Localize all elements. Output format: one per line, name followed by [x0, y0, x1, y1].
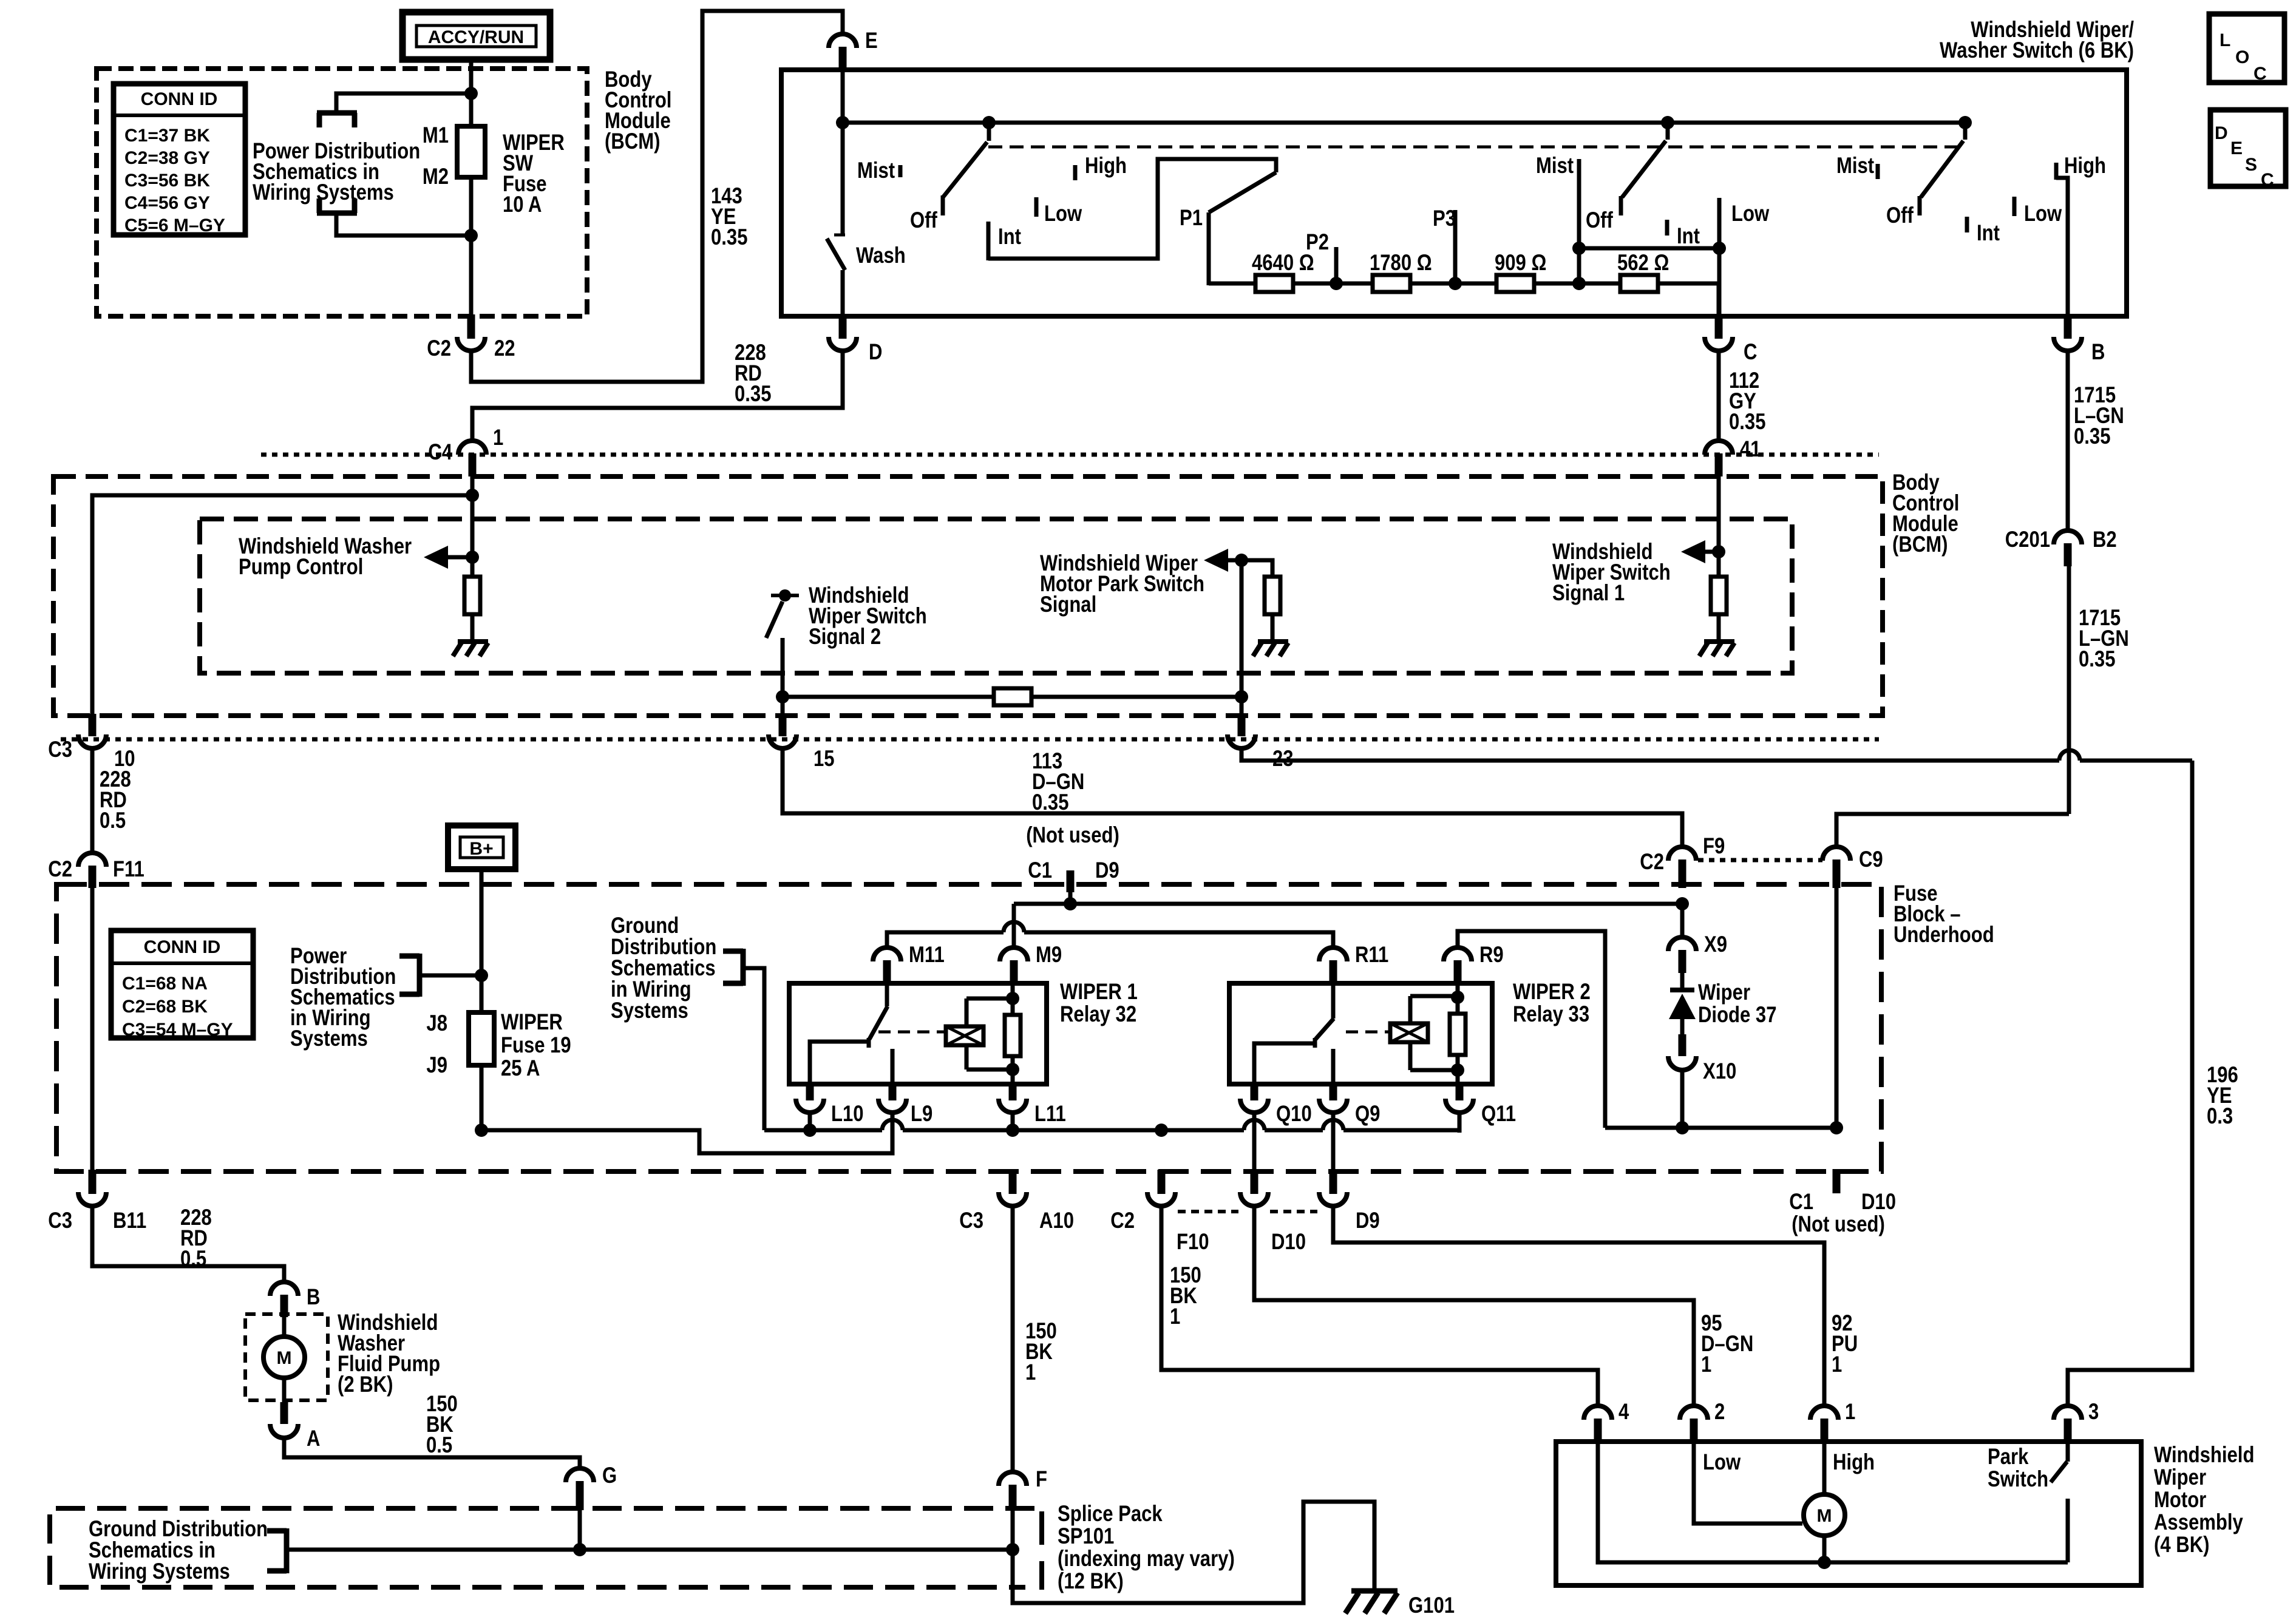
- svg-text:D: D: [2215, 123, 2228, 143]
- wire splice to G101: [1013, 1502, 1374, 1603]
- svg-text:(indexing may vary): (indexing may vary): [1058, 1547, 1235, 1571]
- wire 150 BK 1 (A10 to F): [1011, 1205, 1015, 1473]
- node D9 bus F9 branch: [1676, 897, 1689, 910]
- wire gang3 High to B: [2056, 178, 2068, 316]
- DESC box: [2210, 110, 2286, 190]
- contact P2: [1306, 230, 1336, 283]
- connector C3 pin 10: [48, 714, 135, 771]
- off-page bracket (ground distribution relay): [723, 949, 743, 986]
- pin J9 label: [426, 1053, 447, 1078]
- label Windshield Washer Fluid Pump (2 BK): [338, 1310, 440, 1397]
- label Wiper Diode 37: [1698, 980, 1777, 1028]
- svg-text:1: 1: [493, 425, 503, 450]
- label Windshield Wiper Motor Assembly (4 BK): [2154, 1443, 2254, 1558]
- node fuse 19 out: [475, 1124, 488, 1137]
- svg-text:E: E: [2230, 138, 2243, 158]
- wire R562 to C: [1658, 283, 1719, 316]
- resistor 562 ohm: [1617, 251, 1669, 292]
- svg-text:P1: P1: [1180, 206, 1203, 231]
- svg-text:M: M: [1817, 1506, 1832, 1526]
- svg-text:(Not used): (Not used): [1026, 823, 1119, 848]
- svg-text:B11: B11: [113, 1209, 146, 1233]
- splice SP101: [1006, 1511, 1042, 1590]
- svg-text:Wash: Wash: [856, 243, 906, 268]
- wiper motor assembly box: [1556, 1442, 2141, 1585]
- svg-text:Off: Off: [1586, 208, 1613, 233]
- svg-text:0.35: 0.35: [2079, 647, 2115, 672]
- label Windshield Wiper/Washer Switch (6 BK): [1940, 18, 2134, 63]
- svg-text:0.35: 0.35: [735, 382, 771, 407]
- svg-text:X9: X9: [1704, 932, 1727, 957]
- svg-text:M11: M11: [909, 943, 945, 968]
- svg-text:1: 1: [1701, 1352, 1711, 1377]
- svg-text:0.5: 0.5: [426, 1433, 452, 1458]
- gang3 blade to Off: [1920, 123, 1965, 215]
- wire motor low (2): [1694, 1443, 1802, 1524]
- node C9 bus junction: [1830, 1121, 1843, 1134]
- svg-text:Low: Low: [1044, 202, 1082, 226]
- contact gang3 High: [2056, 154, 2106, 180]
- svg-text:41: 41: [1740, 437, 1761, 462]
- connector 3 (motor): [2054, 1400, 2099, 1443]
- svg-text:C: C: [1744, 340, 1757, 365]
- wire bracket to G wire: [287, 1548, 580, 1552]
- power flag ACCY/RUN: [402, 12, 550, 59]
- gang1 blade to Off: [943, 123, 989, 215]
- label Park Switch: [1988, 1445, 2048, 1492]
- relay1 NO contact L9 post: [891, 1049, 895, 1084]
- connector B (washer switch): [2054, 314, 2105, 365]
- hop bus over Q9: [1323, 1120, 1343, 1130]
- node D9 bus M9 branch: [1064, 897, 1077, 910]
- connector D10: [1240, 1170, 1306, 1255]
- node gang2 Mist-Low junction: [1572, 242, 1586, 255]
- label gang1 Low: [1036, 197, 1082, 226]
- connector M9: [1000, 943, 1062, 986]
- svg-text:C2: C2: [48, 857, 72, 882]
- wire X10 to bottom bus: [1680, 1070, 1685, 1128]
- wire Q10 to D10: [1252, 1112, 1257, 1171]
- label 95 D-GN 1: [1701, 1311, 1753, 1377]
- svg-text:F11: F11: [113, 857, 144, 882]
- svg-text:CONN ID: CONN ID: [141, 89, 218, 109]
- svg-text:S: S: [2245, 155, 2257, 175]
- svg-text:High: High: [2064, 154, 2106, 178]
- label gang1 High: [1075, 154, 1127, 180]
- svg-text:D9: D9: [1095, 858, 1119, 883]
- connector 1 (motor): [1810, 1400, 1855, 1443]
- wire ACCY/RUN to fuse: [469, 59, 474, 129]
- svg-text:0.3: 0.3: [2207, 1104, 2233, 1129]
- svg-text:C1: C1: [1789, 1190, 1813, 1215]
- svg-text:D9: D9: [1356, 1209, 1380, 1233]
- wire P3 to R909: [1455, 282, 1496, 286]
- node gang2 pivot: [1661, 116, 1674, 129]
- svg-text:Splice Pack: Splice Pack: [1058, 1502, 1163, 1527]
- svg-text:J8: J8: [426, 1011, 447, 1036]
- svg-text:D10: D10: [1271, 1230, 1306, 1255]
- svg-text:0.35: 0.35: [1032, 790, 1068, 815]
- wire 1715 L-GN (B to C201): [2066, 351, 2070, 532]
- wire F11 to B11: [90, 888, 95, 1171]
- svg-text:M1: M1: [423, 123, 449, 148]
- svg-text:(2 BK): (2 BK): [338, 1372, 393, 1397]
- label Fuse Block - Underhood: [1894, 881, 1994, 947]
- svg-text:C2=68 BK: C2=68 BK: [122, 997, 208, 1017]
- node washer pump branch: [466, 489, 479, 502]
- BCM box (dashed): [53, 476, 1883, 716]
- resistor signal2: [994, 688, 1031, 705]
- node gang2 Low junction: [1713, 242, 1726, 255]
- svg-text:C1=68 NA: C1=68 NA: [122, 974, 208, 994]
- off-page bracket (ground distribution bottom): [267, 1528, 287, 1573]
- wire M11-R11 bus: [887, 932, 1333, 947]
- wire G to splice: [578, 1510, 582, 1550]
- label 228 RD 0.5 (pump): [180, 1205, 212, 1272]
- connector C3 pin A10: [959, 1170, 1074, 1233]
- relay2 armature: [1315, 986, 1334, 1048]
- arrow park switch signal: [1204, 549, 1240, 572]
- svg-text:C2=38 GY: C2=38 GY: [124, 148, 210, 168]
- resistor 4640 ohm: [1252, 251, 1314, 292]
- label 196 YE 0.3: [2207, 1063, 2238, 1129]
- CONN ID table (BCM): [114, 84, 245, 236]
- svg-text:High: High: [1085, 154, 1127, 178]
- node F10 bus junction: [1155, 1124, 1168, 1137]
- label WIPER 2 Relay 33: [1513, 980, 1591, 1027]
- LOC box: [2209, 14, 2284, 84]
- wire L10 to bus: [808, 1112, 812, 1130]
- svg-text:M9: M9: [1036, 943, 1062, 968]
- svg-text:G101: G101: [1408, 1593, 1455, 1617]
- connector G: [566, 1463, 617, 1510]
- svg-text:R9: R9: [1479, 943, 1504, 968]
- label 143 YE 0.35: [711, 184, 747, 250]
- node gang3 pivot: [1958, 116, 1972, 129]
- wire 1715 L-GN (C201 down): [2067, 566, 2071, 814]
- park switch: [2051, 1443, 2068, 1562]
- node fuse 19 top: [475, 969, 488, 982]
- connector Q9: [1319, 1082, 1380, 1127]
- svg-text:Int: Int: [1677, 224, 1700, 249]
- label gang1 Mist: [857, 158, 900, 183]
- svg-text:F10: F10: [1177, 1230, 1209, 1255]
- contact gang2 Low bar: [1719, 198, 1770, 248]
- svg-text:X10: X10: [1703, 1059, 1736, 1084]
- gang2 blade to Off: [1621, 123, 1668, 215]
- node L10 bus junction: [803, 1124, 817, 1137]
- svg-text:C: C: [2261, 170, 2274, 190]
- wire R1780 to P3: [1410, 282, 1455, 286]
- svg-text:L9: L9: [911, 1102, 932, 1127]
- wire R909 to Mist bar: [1534, 282, 1579, 286]
- off-page bracket (B+ distribution): [399, 954, 419, 997]
- wire common to park post: [1824, 1561, 2068, 1565]
- svg-text:WIPER: WIPER: [501, 1010, 563, 1035]
- svg-text:Systems: Systems: [611, 998, 688, 1023]
- svg-text:Relay 32: Relay 32: [1060, 1002, 1136, 1027]
- label gang3 Mist: [1836, 154, 1878, 179]
- wire resistor to park node: [1031, 695, 1241, 699]
- connector D9: [1319, 1170, 1380, 1233]
- BCM connector line C3 (dotted): [61, 737, 1879, 742]
- node park switch wire: [1235, 690, 1248, 703]
- connector Q11: [1445, 1082, 1516, 1127]
- resistor signal1 pulldown: [1711, 577, 1727, 614]
- wire D9 bus: [1014, 892, 1682, 904]
- svg-text:C3: C3: [48, 1209, 72, 1233]
- wire resistor to ground (signal1): [1717, 614, 1721, 642]
- relay1 link (dashed): [878, 1031, 947, 1034]
- wire 113 D-GN (15 to F9): [783, 749, 1682, 849]
- wire 112 GY (C to 41): [1717, 351, 1721, 441]
- svg-text:M: M: [277, 1348, 292, 1368]
- label 150 BK 1 (F10): [1170, 1263, 1201, 1329]
- connector C2 pin 22: [427, 314, 515, 361]
- connector L11: [999, 1082, 1066, 1127]
- connector C9: [1822, 847, 1883, 888]
- relay WIPER 2 Relay 33 box: [1229, 983, 1492, 1084]
- arrow wiper switch signal 1: [1681, 540, 1717, 563]
- contact P1 post: [1180, 206, 1209, 285]
- relay2 link (dashed): [1346, 1031, 1390, 1034]
- connector R11: [1319, 943, 1388, 986]
- pin M2 label: [423, 164, 449, 189]
- svg-text:(12 BK): (12 BK): [1058, 1569, 1124, 1594]
- wire 228 RD 0.5 (10 to F11): [90, 749, 95, 854]
- svg-text:A10: A10: [1039, 1209, 1074, 1233]
- label 113 D-GN 0.35: [1032, 749, 1084, 815]
- svg-text:Switch: Switch: [1988, 1467, 2048, 1492]
- wire F to splice: [1011, 1510, 1015, 1550]
- svg-text:Q10: Q10: [1276, 1102, 1312, 1127]
- node relay2 coil top: [1451, 991, 1464, 1004]
- wiper motor M: [1804, 1494, 1845, 1562]
- connector L10: [796, 1082, 864, 1127]
- svg-text:Wiring Systems: Wiring Systems: [89, 1559, 230, 1584]
- label WIPER Fuse 19 25 A: [501, 1010, 571, 1081]
- wire resistor to ground (park): [1271, 614, 1275, 642]
- wire chain to R562: [1579, 282, 1620, 286]
- svg-text:A: A: [307, 1426, 320, 1451]
- label 228 RD 0.5: [100, 767, 131, 833]
- svg-text:(4 BK): (4 BK): [2154, 1533, 2209, 1558]
- relay2 NC contact Q10 arm: [1254, 1043, 1316, 1084]
- wash switch: [827, 123, 906, 316]
- label High (motor): [1833, 1450, 1875, 1475]
- node relay1 coil bottom: [1006, 1063, 1019, 1076]
- svg-text:P3: P3: [1433, 206, 1456, 231]
- svg-text:Signal: Signal: [1040, 592, 1096, 617]
- svg-text:0.5: 0.5: [180, 1247, 206, 1272]
- svg-text:J9: J9: [426, 1053, 447, 1078]
- node P3 junction: [1449, 277, 1462, 290]
- svg-text:R11: R11: [1355, 943, 1388, 968]
- connector 41: [1705, 437, 1761, 476]
- svg-text:562 Ω: 562 Ω: [1617, 251, 1669, 276]
- diode Wiper Diode 37: [1669, 973, 1696, 1034]
- svg-text:C3=54 M–GY: C3=54 M–GY: [122, 1020, 233, 1040]
- label gang3 Int: [1967, 217, 2000, 246]
- label 150 BK 1 (A10): [1025, 1319, 1057, 1385]
- svg-text:Q9: Q9: [1355, 1102, 1380, 1127]
- relay1 NC contact L10 arm: [810, 1042, 871, 1084]
- svg-text:(Not used): (Not used): [1792, 1212, 1885, 1237]
- relay2 NO contact Q9 post: [1331, 1049, 1336, 1084]
- svg-text:L: L: [2220, 30, 2230, 50]
- label Windshield Wiper Motor Park Switch Signal: [1040, 551, 1204, 617]
- connector 15: [769, 714, 835, 771]
- connector Q10: [1240, 1082, 1312, 1127]
- svg-text:C2: C2: [427, 336, 451, 361]
- svg-text:0.35: 0.35: [2074, 424, 2110, 449]
- svg-text:High: High: [1833, 1450, 1875, 1475]
- svg-text:M2: M2: [423, 164, 449, 189]
- svg-text:Mist: Mist: [857, 158, 895, 183]
- svg-text:25 A: 25 A: [501, 1056, 540, 1081]
- node washer pump control: [466, 551, 479, 564]
- wire 143 YE (C2-22 to switch E): [471, 11, 843, 382]
- wire L9 to fuse jog: [891, 1112, 895, 1153]
- wire bracket to fuse 19: [419, 974, 480, 978]
- svg-text:1: 1: [1845, 1400, 1855, 1425]
- wire fuse 19 to bus: [480, 1065, 484, 1130]
- connector F: [999, 1467, 1047, 1510]
- wire P1 to R4640: [1209, 282, 1255, 286]
- CONN ID table (fuse block): [111, 931, 253, 1040]
- svg-text:B: B: [2091, 340, 2105, 365]
- connector link F10-D10-D9 (dashed): [1178, 1210, 1317, 1213]
- wire relay output bottom bus: [1605, 1126, 1836, 1130]
- label 1715 L-GN 0.35 (upper): [2074, 383, 2124, 449]
- connector 4 (motor): [1584, 1400, 1629, 1443]
- svg-text:D: D: [869, 340, 882, 365]
- hop bus over Q10: [1244, 1120, 1265, 1130]
- svg-text:0.35: 0.35: [1729, 410, 1765, 435]
- wire park signal to resistor: [1241, 560, 1272, 577]
- node X10 bus junction: [1676, 1121, 1689, 1134]
- label Windshield Wiper Switch Signal 2: [809, 583, 927, 649]
- wire signal2 to resistor: [783, 695, 994, 699]
- wire P2 to R1780: [1336, 282, 1373, 286]
- connector 2 (motor): [1680, 1400, 1725, 1443]
- svg-text:L11: L11: [1034, 1102, 1066, 1127]
- power flag B+: [448, 825, 515, 869]
- node P2 junction: [1330, 277, 1343, 290]
- svg-text:Int: Int: [998, 225, 1021, 249]
- wire 92 PU (D9 to motor 1): [1333, 1205, 1824, 1406]
- wire F9 bus to X9: [1680, 904, 1685, 939]
- label Ground Distribution Schematics (bottom): [89, 1517, 268, 1584]
- label gang1 Off: [910, 208, 937, 233]
- label Windshield Washer Pump Control: [239, 534, 412, 580]
- wire gang2 Low to C: [1717, 248, 1722, 316]
- contact P3: [1433, 206, 1456, 283]
- label 228 RD 0.35: [735, 341, 771, 407]
- svg-text:3: 3: [2088, 1400, 2099, 1425]
- svg-text:Washer Switch (6 BK): Washer Switch (6 BK): [1940, 38, 2134, 63]
- fuse block connector line (dotted): [1698, 858, 1822, 863]
- relay2 coil resistor: [1450, 986, 1466, 1084]
- connector R9: [1444, 943, 1504, 986]
- svg-text:1780 Ω: 1780 Ω: [1370, 251, 1432, 276]
- svg-text:B+: B+: [469, 839, 493, 859]
- wire Q9 to D9: [1331, 1112, 1336, 1171]
- svg-text:Park: Park: [1988, 1445, 2029, 1470]
- wire 196 YE (to park switch 3): [2068, 761, 2192, 1406]
- wire signal2 to 15: [781, 697, 785, 717]
- svg-text:F9: F9: [1703, 834, 1725, 859]
- connector L9: [878, 1082, 932, 1127]
- BCM connector line C4 (dotted): [261, 453, 1879, 457]
- wire 23 to 196-YE corner: [1241, 749, 2192, 761]
- node wiper switch signal 1: [1712, 545, 1725, 558]
- svg-text:Mist: Mist: [1536, 154, 1574, 178]
- svg-text:Pump Control: Pump Control: [239, 555, 363, 580]
- svg-text:Wiper: Wiper: [2154, 1465, 2206, 1490]
- svg-text:Low: Low: [1731, 202, 1770, 226]
- connector C2 pin F11: [48, 853, 144, 888]
- svg-text:D10: D10: [1861, 1190, 1896, 1215]
- windshield wiper/washer switch box: [781, 70, 2127, 316]
- resistor washer pump pulldown: [464, 577, 480, 614]
- svg-text:Motor: Motor: [2154, 1488, 2206, 1513]
- node park switch signal: [1235, 554, 1248, 567]
- pin M1 label: [423, 123, 449, 148]
- svg-text:Underhood: Underhood: [1894, 923, 1994, 947]
- label gang3 Low: [2014, 197, 2062, 226]
- svg-text:B2: B2: [2093, 527, 2117, 552]
- svg-text:C1=37 BK: C1=37 BK: [124, 126, 210, 146]
- node E bus junction: [836, 116, 849, 129]
- wire park node up: [1240, 560, 1244, 697]
- svg-text:WIPER 1: WIPER 1: [1060, 980, 1138, 1005]
- svg-text:G: G: [602, 1463, 617, 1488]
- svg-text:L10: L10: [831, 1102, 864, 1127]
- wire fuse to C2-22: [469, 177, 474, 316]
- label gang2 Int: [1667, 220, 1700, 249]
- wire C4-1 into BCM: [470, 476, 475, 577]
- connector D (washer switch): [829, 314, 882, 365]
- svg-text:Relay 33: Relay 33: [1513, 1002, 1589, 1027]
- connector C4 pin 1: [428, 425, 503, 476]
- P1 wiper blade: [1209, 172, 1276, 212]
- svg-text:Windshield: Windshield: [2154, 1443, 2254, 1468]
- wire 1715 to C9: [1836, 814, 2069, 849]
- svg-text:4: 4: [1618, 1400, 1629, 1425]
- connector C (washer switch): [1705, 314, 1757, 365]
- resistor park signal pulldown: [1265, 577, 1280, 614]
- node L11 bus junction: [1006, 1124, 1019, 1137]
- hop bus over L9: [882, 1120, 903, 1130]
- wire 95 D-GN (D10 to motor 2): [1254, 1205, 1694, 1406]
- svg-text:WIPER 2: WIPER 2: [1513, 980, 1591, 1005]
- svg-text:C2: C2: [1110, 1209, 1135, 1233]
- label Windshield Wiper Switch Signal 1: [1552, 540, 1671, 606]
- svg-text:C3: C3: [959, 1209, 983, 1233]
- label Body Control Module (BCM) right: [1892, 470, 1959, 557]
- label 112 GY 0.35: [1729, 368, 1765, 435]
- svg-text:0.5: 0.5: [100, 808, 126, 833]
- svg-text:Signal 1: Signal 1: [1552, 581, 1625, 606]
- ground distribution box (dashed): [50, 1508, 1034, 1587]
- svg-text:F: F: [1036, 1467, 1047, 1492]
- connector C2 pin F9: [1640, 834, 1725, 888]
- wire motor common (4): [1598, 1443, 1822, 1562]
- wire splice bus: [580, 1548, 1013, 1552]
- label Splice Pack SP101: [1058, 1502, 1235, 1594]
- node fuse M1 feed: [464, 87, 478, 100]
